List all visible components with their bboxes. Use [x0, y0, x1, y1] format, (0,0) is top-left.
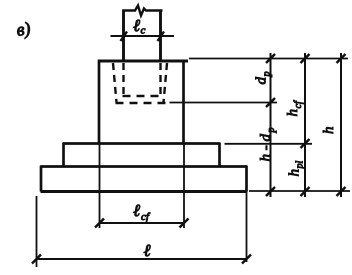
tick l left	[32, 255, 41, 264]
svg-text:d: d	[254, 77, 270, 85]
tick line1 top	[266, 54, 275, 63]
tick line3 bottom	[337, 187, 346, 196]
dimension line dp / h-dp (line 1)	[270, 53, 272, 197]
extension line l right (slab right down)	[246, 192, 248, 263]
svg-text:h: h	[287, 169, 303, 177]
pedestal right edge	[182, 60, 185, 145]
dimension line l	[37, 258, 248, 260]
tick line2 top	[301, 54, 310, 63]
tick line1 bottom	[266, 187, 275, 196]
svg-text:h: h	[321, 127, 337, 135]
label h	[321, 127, 337, 135]
column left edge	[122, 10, 125, 61]
svg-text:c: c	[141, 25, 146, 37]
svg-text:h - d: h - d	[258, 134, 274, 162]
slab bottom	[41, 190, 248, 193]
socket left wall (dashed)	[113, 63, 117, 103]
svg-text:p: p	[262, 72, 273, 78]
tick l right	[242, 255, 251, 264]
socket floor (dashed)	[116, 102, 166, 104]
column right edge	[159, 10, 162, 61]
column below ground left (dashed)	[122, 63, 124, 95]
middle step left edge	[62, 143, 65, 167]
middle step top	[63, 142, 220, 145]
tick lc left	[121, 32, 128, 42]
slab right edge	[245, 166, 248, 192]
middle step right edge	[218, 143, 221, 167]
column below ground right (dashed)	[159, 63, 161, 95]
extension line slab bottom to right	[249, 190, 350, 192]
tick line3 top	[337, 54, 346, 63]
tick line2 bottom	[301, 187, 310, 196]
label hcf	[285, 100, 304, 116]
column break line with zigzag	[123, 6, 163, 16]
svg-text:ℓ: ℓ	[133, 201, 140, 220]
svg-text:cf: cf	[141, 211, 151, 223]
slab left edge	[40, 166, 43, 192]
extension line pedestal bottom to right	[225, 143, 313, 145]
slab top	[41, 165, 248, 168]
socket right wall (dashed)	[164, 63, 168, 103]
tick lcf right	[180, 219, 189, 228]
svg-text:ℓ: ℓ	[133, 16, 140, 35]
tick lc right	[158, 32, 165, 42]
extension line pedestal top to right	[189, 58, 348, 60]
svg-text:h: h	[285, 109, 301, 117]
label dp	[254, 72, 273, 85]
svg-text:ℓ: ℓ	[144, 241, 151, 260]
column bottom end (dashed)	[123, 95, 162, 97]
svg-text:p: p	[266, 128, 277, 134]
extension line lcf right (pedestal right down)	[183, 144, 185, 228]
tick line1 middle	[266, 98, 275, 107]
dimension line h (line 3)	[340, 53, 342, 197]
pedestal top	[99, 59, 189, 62]
extension line lcf left (pedestal left down)	[99, 144, 101, 228]
tick line2 middle	[301, 139, 310, 148]
dimension line hcf / hpl (line 2)	[304, 53, 306, 197]
dimension line lcf	[100, 222, 185, 224]
dimension line lc	[111, 35, 175, 37]
pedestal left edge	[98, 60, 101, 145]
label h-dp	[258, 128, 277, 162]
extension line socket bottom to right	[170, 102, 278, 104]
svg-text:pl: pl	[295, 161, 306, 170]
tick lcf left	[95, 219, 104, 228]
svg-text:cf: cf	[293, 100, 304, 108]
label hpl	[287, 161, 306, 177]
svg-text:в): в)	[15, 18, 32, 41]
extension line l left (slab left down)	[36, 196, 38, 267]
